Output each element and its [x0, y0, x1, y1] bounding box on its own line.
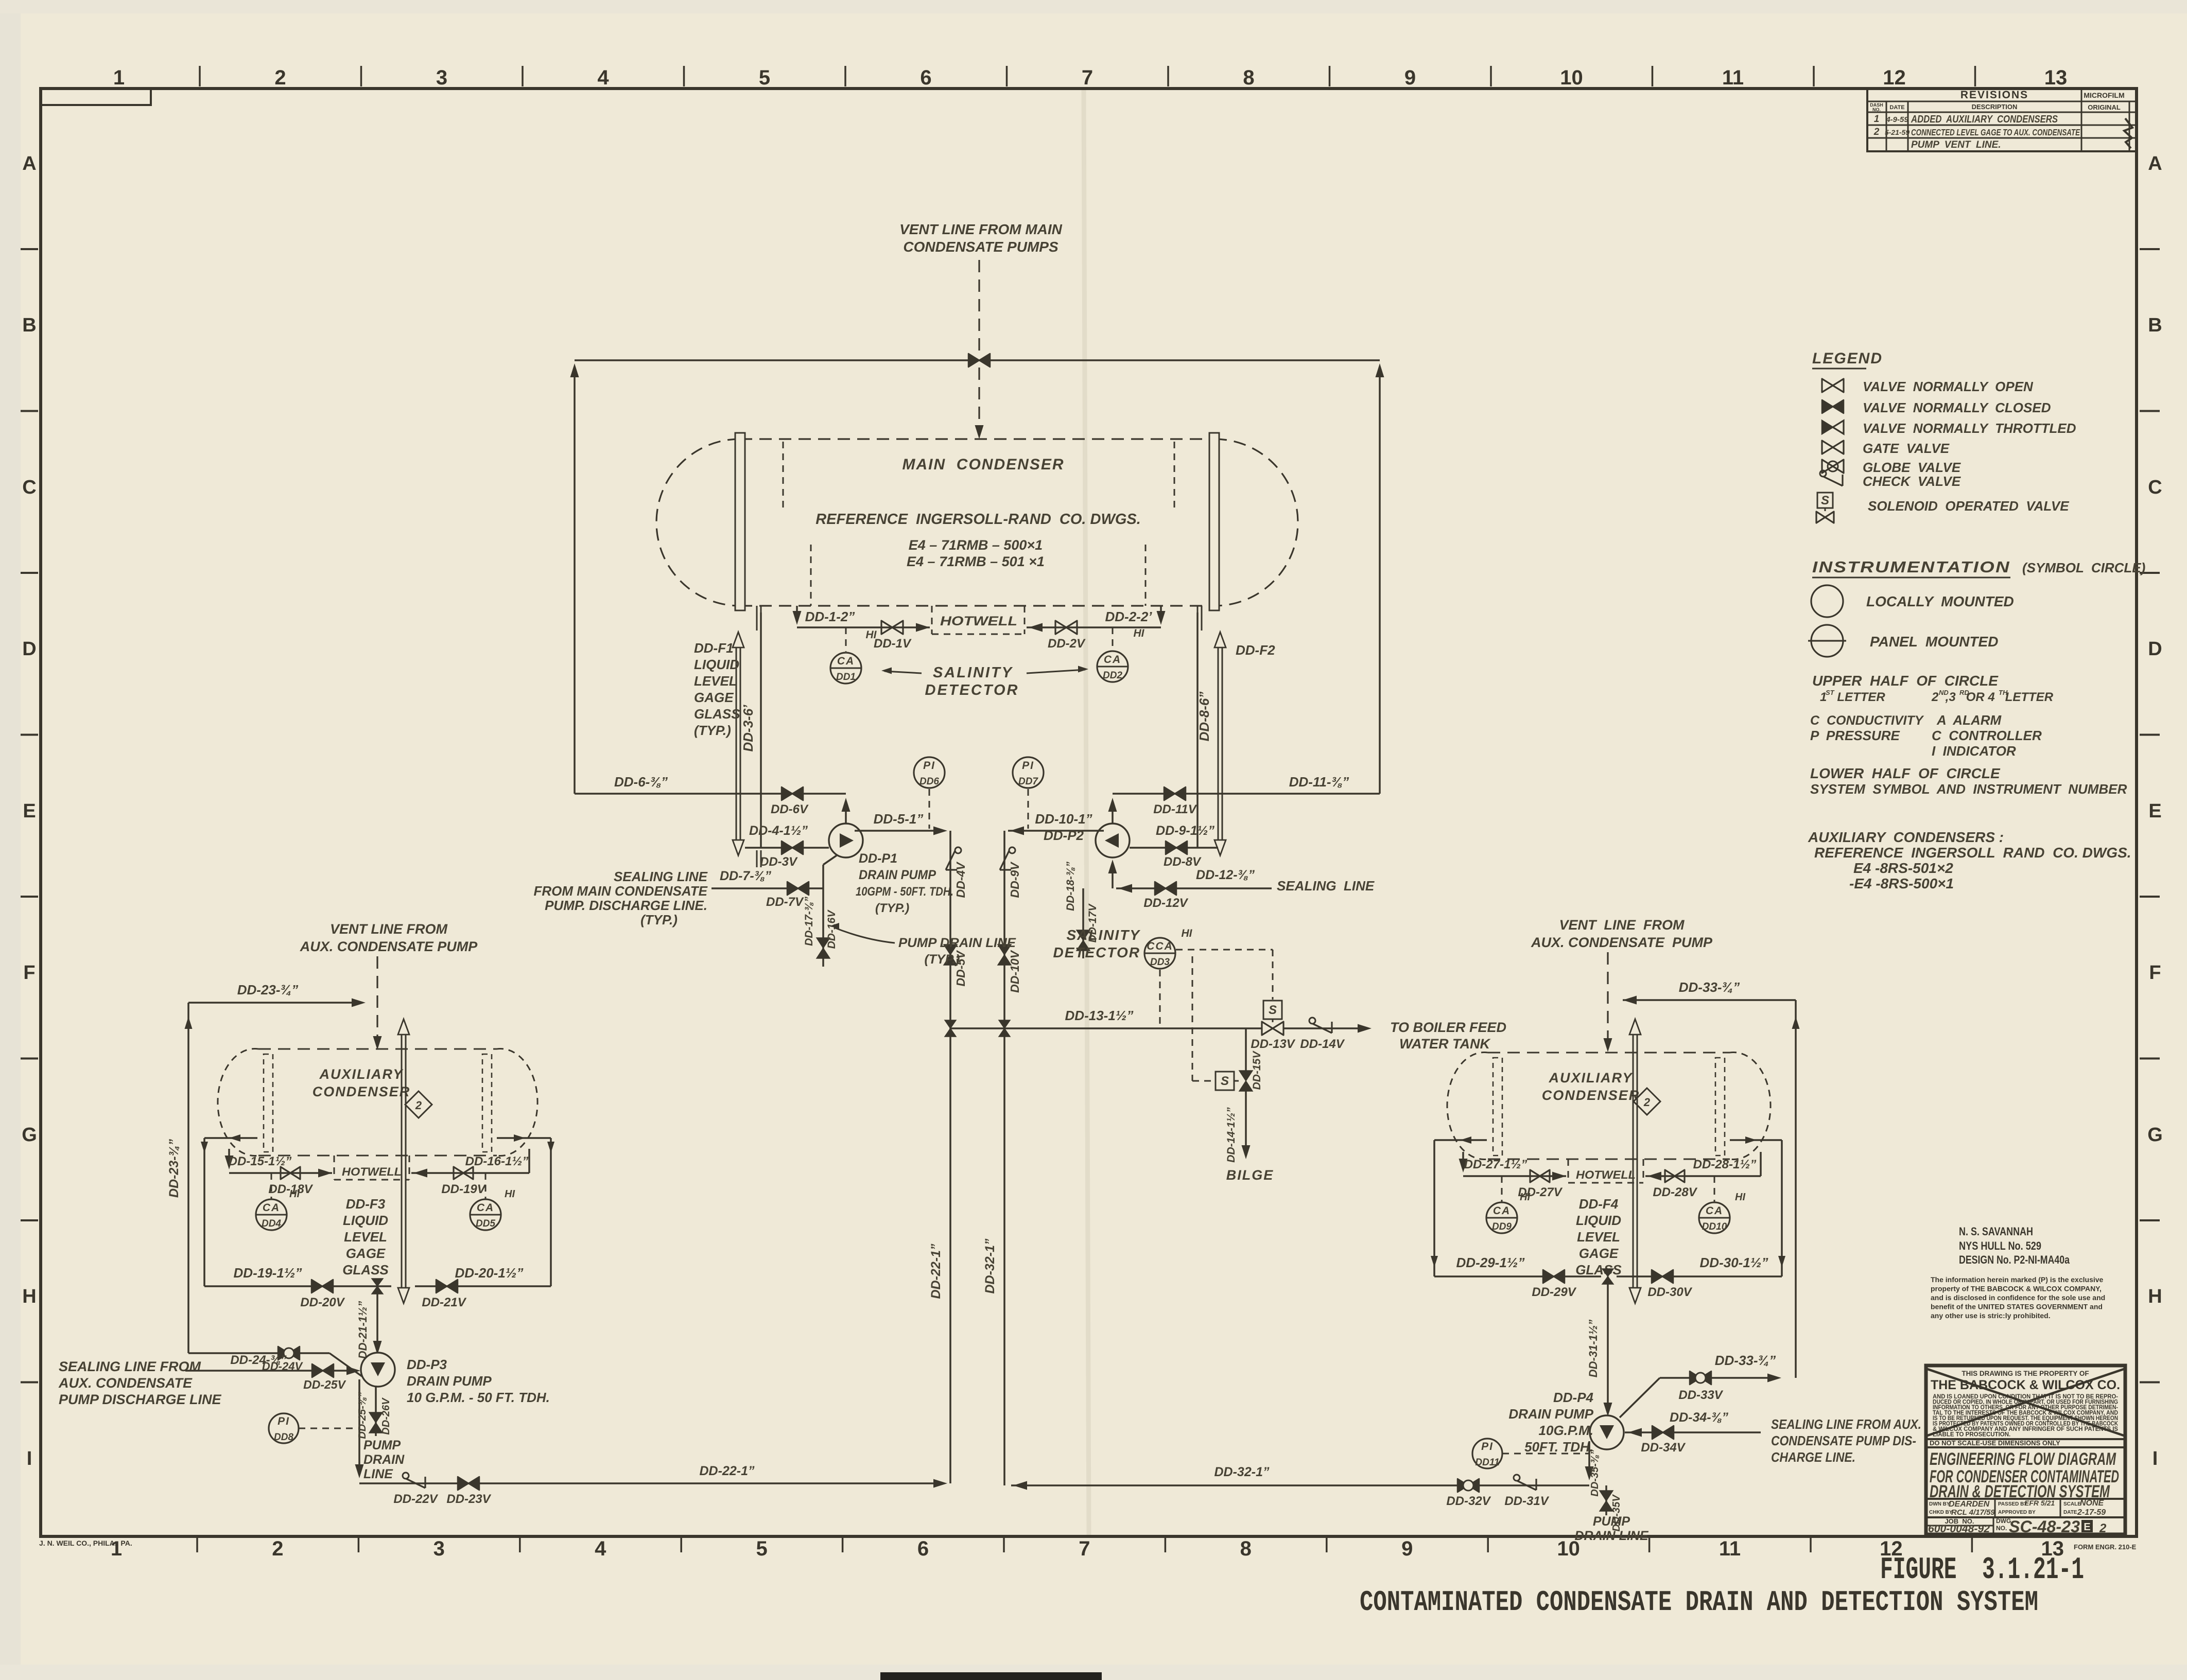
svg-text:10GPM - 50FT. TDH.: 10GPM - 50FT. TDH. [856, 885, 953, 899]
svg-text:DETECTOR: DETECTOR [925, 682, 1019, 698]
svg-text:C CONDUCTIVITY: C CONDUCTIVITY [1810, 713, 1924, 728]
title block credits row [1929, 1499, 2106, 1517]
svg-text:DD5: DD5 [476, 1218, 495, 1229]
pump DD-P3 label [407, 1357, 550, 1405]
pipe DD-30-1.5in [1617, 1255, 1782, 1276]
to boiler feed water tank label [1390, 1020, 1506, 1052]
left vent riser pipe [570, 363, 579, 794]
svg-text:DD-19-1½”: DD-19-1½” [234, 1265, 302, 1281]
right aux left riser [1431, 1136, 1487, 1276]
vent header valve normally closed [968, 354, 990, 367]
svg-text:GLOBE VALVE: GLOBE VALVE [1863, 460, 1961, 475]
svg-text:DD-25-⅜”: DD-25-⅜” [357, 1392, 368, 1439]
svg-text:ENGINEERING FLOW DIAGRAM: ENGINEERING FLOW DIAGRAM [1930, 1449, 2116, 1469]
pipe DD-32 riser [1003, 831, 1005, 1485]
svg-text:NONE: NONE [2080, 1499, 2105, 1508]
svg-text:A ALARM: A ALARM [1936, 712, 2002, 728]
top ruler numbers 1-13 [113, 66, 2067, 89]
svg-text:ADDED AUXILIARY CONDENSERS: ADDED AUXILIARY CONDENSERS [1911, 114, 2058, 125]
svg-text:50FT. TDH.: 50FT. TDH. [1524, 1439, 1593, 1455]
pump DD-P2 [1096, 824, 1130, 857]
svg-text:HOTWELL: HOTWELL [940, 614, 1017, 628]
svg-text:DD-32-1”: DD-32-1” [983, 1238, 997, 1293]
svg-text:DESCRIPTION: DESCRIPTION [1972, 103, 2018, 111]
right aux hotwell box [1568, 1159, 1643, 1183]
valve DD-5V [944, 944, 967, 987]
left auxiliary condenser vessel [218, 1048, 537, 1156]
svg-text:PUMP: PUMP [1593, 1514, 1630, 1529]
svg-text:3: 3 [433, 1537, 445, 1560]
svg-text:DD3: DD3 [1150, 957, 1170, 968]
svg-text:11: 11 [1722, 66, 1744, 89]
pump DD-P2 riser [1108, 798, 1117, 824]
pipe DD-15-1.5in [225, 1149, 333, 1178]
svg-text:The information herein marked: The information herein marked (P) is the… [1931, 1275, 2104, 1284]
svg-text:HI: HI [505, 1188, 515, 1200]
legend check valve [1820, 470, 1961, 489]
instrument CCA DD3 [1144, 927, 1193, 969]
svg-text:DD-9-1½”: DD-9-1½” [1156, 824, 1214, 838]
svg-text:DD-23V: DD-23V [446, 1492, 491, 1506]
svg-text:DD-18-⅜”: DD-18-⅜” [1065, 862, 1077, 911]
legend title [1812, 350, 1883, 369]
svg-text:VENT LINE FROM MAIN: VENT LINE FROM MAIN [899, 221, 1063, 237]
svg-text:DD10: DD10 [1702, 1221, 1727, 1232]
svg-text:PUMP DISCHARGE LINE: PUMP DISCHARGE LINE [59, 1392, 222, 1407]
pipe DD-8-6in [1196, 612, 1212, 848]
svg-text:SYSTEM SYMBOL AND INSTRUMEN: SYSTEM SYMBOL AND INSTRUMENT NUMBER [1810, 781, 2127, 797]
svg-text:SALINITY: SALINITY [933, 664, 1013, 681]
title strip box top-left [41, 89, 151, 105]
legend valve normally open [1822, 379, 2034, 394]
svg-text:MICROFILM: MICROFILM [2084, 91, 2124, 99]
svg-text:(SYMBOL CIRCLE): (SYMBOL CIRCLE) [2022, 560, 2145, 575]
svg-text:DD-5-1”: DD-5-1” [874, 811, 924, 827]
junction right aux drain [1602, 1269, 1613, 1284]
svg-text:DD-F2: DD-F2 [1236, 642, 1275, 658]
check valve DD-14V [1300, 1018, 1345, 1051]
svg-text:CHECK VALVE: CHECK VALVE [1863, 474, 1961, 489]
svg-text:S: S [1269, 1003, 1277, 1017]
main condenser reference note [815, 511, 1141, 569]
svg-text:10: 10 [1560, 66, 1583, 89]
svg-text:DD-P2: DD-P2 [1044, 828, 1084, 843]
pipe DD-3-6ft [740, 612, 761, 848]
svg-text:DATE: DATE [2063, 1510, 2077, 1515]
svg-text:CA: CA [263, 1202, 280, 1214]
svg-text:C: C [2148, 477, 2162, 498]
bottom ruler tick marks [197, 1538, 1972, 1552]
svg-text:DD-F1: DD-F1 [694, 640, 734, 656]
svg-text:DATE: DATE [1889, 104, 1904, 111]
information notice [1931, 1275, 2105, 1320]
svg-text:LEVEL: LEVEL [1577, 1229, 1620, 1245]
svg-text:CA: CA [477, 1202, 494, 1214]
svg-text:DD-7V: DD-7V [766, 895, 804, 909]
svg-text:S: S [1821, 494, 1829, 507]
instrument CA DD5 [470, 1173, 515, 1230]
svg-text:2: 2 [272, 1537, 283, 1560]
svg-text:AUX. CONDENSATE: AUX. CONDENSATE [58, 1375, 193, 1391]
pipe DD-11-3/8in [1113, 774, 1380, 794]
svg-text:DD-30-1½”: DD-30-1½” [1700, 1255, 1768, 1270]
svg-text:HOTWELL: HOTWELL [342, 1165, 402, 1178]
svg-text:13: 13 [2044, 66, 2068, 89]
svg-text:GATE VALVE: GATE VALVE [1863, 441, 1950, 456]
valve DD-18V [268, 1167, 313, 1196]
svg-text:UPPER HALF OF CIRCLE: UPPER HALF OF CIRCLE [1812, 673, 1999, 689]
svg-text:AUX. CONDENSATE PUMP: AUX. CONDENSATE PUMP [1531, 935, 1713, 950]
svg-text:DD-1V: DD-1V [874, 637, 912, 651]
instrument PI DD7 [1013, 757, 1044, 829]
svg-text:SOLENOID OPERATED VALVE: SOLENOID OPERATED VALVE [1868, 498, 2069, 514]
svg-text:DESIGN No. P2-NI-MA40a: DESIGN No. P2-NI-MA40a [1959, 1253, 2070, 1266]
instrument CA DD1 [830, 627, 877, 684]
pump DD-P4 drain pipe [1585, 1441, 1601, 1497]
svg-text:6: 6 [920, 66, 931, 89]
svg-text:MAIN CONDENSER: MAIN CONDENSER [902, 456, 1064, 473]
svg-text:C CONTROLLER: C CONTROLLER [1932, 728, 2042, 743]
svg-text:DD-4V: DD-4V [954, 862, 967, 898]
svg-text:DD1: DD1 [836, 672, 856, 682]
pipe DD-10-1in [1008, 811, 1104, 835]
legend solenoid operated valve [1816, 493, 2069, 523]
svg-text:PI: PI [1481, 1441, 1494, 1452]
top ruler tick marks [200, 66, 1975, 86]
svg-text:CA: CA [837, 655, 855, 667]
svg-text:REFERENCE INGERSOLL-RAND CO.: REFERENCE INGERSOLL-RAND CO. DWGS. [815, 511, 1141, 528]
svg-text:TH: TH [1999, 689, 2008, 696]
pipe DD-2-2in [1027, 606, 1166, 632]
svg-text:DD-15-1½”: DD-15-1½” [229, 1154, 292, 1168]
patent notice [1930, 1370, 2120, 1447]
valve DD-23V [446, 1477, 491, 1506]
svg-text:DRAIN PUMP: DRAIN PUMP [859, 868, 936, 882]
valve DD-26V [357, 1386, 392, 1439]
legend lower half note [1810, 765, 2127, 797]
svg-text:DD-28V: DD-28V [1653, 1185, 1697, 1199]
svg-text:-E4 -8RS-500×1: -E4 -8RS-500×1 [1849, 876, 1954, 891]
left aux left riser [201, 1134, 257, 1286]
svg-text:5: 5 [756, 1537, 767, 1560]
svg-text:DD-15V: DD-15V [1251, 1051, 1263, 1090]
legend locally mounted symbol [1811, 585, 2014, 617]
svg-text:ND: ND [1939, 689, 1949, 696]
svg-text:C: C [22, 477, 36, 498]
instrument CA DD4 [256, 1173, 300, 1230]
pump DD-P2 label [1044, 828, 1084, 843]
svg-text:F: F [23, 962, 35, 984]
main hotwell label [940, 614, 1017, 628]
pump DD-P4 label [1508, 1390, 1593, 1455]
pipe DD-5-1in [855, 811, 947, 835]
right aux vent label [1531, 917, 1713, 950]
pipe DD-21-1.5in drop [356, 1286, 382, 1359]
pipe DD-34-3/8in [1625, 1410, 1761, 1437]
svg-text:G: G [22, 1124, 37, 1146]
vent line from main condensate pumps label [899, 221, 1063, 255]
svg-text:4: 4 [595, 1537, 606, 1560]
valve DD-28V [1653, 1170, 1697, 1199]
svg-text:DD-3V: DD-3V [760, 855, 798, 869]
svg-text:9: 9 [1401, 1537, 1413, 1560]
svg-text:benefit of the UNITED STATES G: benefit of the UNITED STATES GOVERNMENT … [1931, 1303, 2103, 1311]
svg-text:DD-4-1½”: DD-4-1½” [749, 824, 808, 838]
pipe DD-20-1.5in [415, 1265, 551, 1286]
svg-text:INSTRUMENTATION: INSTRUMENTATION [1812, 558, 2010, 576]
svg-text:8: 8 [1240, 1537, 1252, 1560]
svg-text:E: E [2148, 800, 2161, 822]
pipe DD-1-2in [793, 606, 930, 632]
right vent riser pipe [1376, 363, 1384, 794]
svg-text:S: S [1221, 1074, 1229, 1088]
left row letters A-I [22, 153, 37, 1469]
svg-text:DD-11-⅜”: DD-11-⅜” [1289, 774, 1349, 790]
svg-text:(TYP.): (TYP.) [875, 901, 909, 915]
svg-text:A: A [2148, 153, 2162, 174]
svg-text:CCA: CCA [1147, 940, 1173, 952]
valve DD-21V [422, 1280, 466, 1309]
svg-text:DD-8-6”: DD-8-6” [1196, 692, 1212, 742]
pipe DD-7-3/8in [711, 869, 823, 888]
svg-text:E4 – 71RMB – 501 ×1: E4 – 71RMB – 501 ×1 [907, 554, 1045, 569]
svg-text:DWN BY: DWN BY [1929, 1501, 1950, 1507]
legend instrumentation title [1812, 558, 2145, 577]
vent header pipe [575, 359, 1380, 361]
drawing title [1930, 1449, 2119, 1501]
svg-text:D: D [2148, 638, 2162, 660]
svg-text:12: 12 [1883, 66, 1906, 89]
instrument CA DD2 [1097, 627, 1145, 682]
svg-text:4-9-59: 4-9-59 [1885, 115, 1908, 124]
svg-text:E4 – 71RMB – 500×1: E4 – 71RMB – 500×1 [909, 537, 1043, 553]
pipe DD-4-1.5in [745, 824, 829, 848]
svg-text:DD9: DD9 [1492, 1221, 1512, 1232]
svg-text:PI: PI [277, 1415, 290, 1427]
valve DD-35V [1600, 1485, 1622, 1532]
instrument PI DD11 [1472, 1439, 1589, 1468]
svg-text:DD-23-¾”: DD-23-¾” [167, 1139, 181, 1198]
svg-text:AUXILIARY: AUXILIARY [1548, 1070, 1633, 1086]
valve DD-8V [1164, 841, 1202, 869]
right aux hotwell label [1576, 1168, 1636, 1181]
svg-text:H: H [2148, 1286, 2162, 1307]
right aux condenser label [1542, 1070, 1640, 1103]
valve DD-34V [1641, 1426, 1686, 1455]
svg-text:DD-33V: DD-33V [1678, 1388, 1723, 1402]
legend valve normally closed [1822, 400, 2051, 415]
solenoid valve DD-13V [1251, 1001, 1295, 1051]
svg-text:VALVE NORMALLY OPEN: VALVE NORMALLY OPEN [1863, 379, 2034, 394]
svg-text:WATER TANK: WATER TANK [1399, 1036, 1491, 1052]
svg-text:RCL 4/17/59: RCL 4/17/59 [1951, 1508, 1995, 1517]
svg-text:DD-6-⅜”: DD-6-⅜” [614, 774, 668, 790]
svg-text:DD-30V: DD-30V [1647, 1285, 1692, 1299]
svg-text:NO.: NO. [1996, 1525, 2007, 1532]
svg-text:CHKD BY: CHKD BY [1929, 1510, 1953, 1515]
svg-text:DETECTOR: DETECTOR [1053, 944, 1141, 960]
pipe DD-16-1.5in [411, 1149, 529, 1178]
svg-text:PUMP: PUMP [363, 1438, 401, 1452]
pipe DD-23-3/4in top [188, 982, 366, 1007]
svg-text:G: G [2147, 1124, 2163, 1146]
valve DD-2V [1048, 621, 1086, 651]
valve DD-27V [1518, 1170, 1563, 1199]
svg-text:7: 7 [1082, 66, 1093, 89]
svg-text:DD-21-1½”: DD-21-1½” [356, 1301, 369, 1359]
svg-text:DD-F4: DD-F4 [1579, 1196, 1619, 1212]
job and drawing number [1926, 1517, 2107, 1536]
svg-text:DD6: DD6 [919, 776, 939, 787]
svg-text:DD-34-⅜”: DD-34-⅜” [1670, 1410, 1728, 1425]
svg-text:CONNECTED LEVEL GAGE TO AUX. C: CONNECTED LEVEL GAGE TO AUX. CONDENSATE [1911, 127, 2080, 137]
svg-text:LIQUID: LIQUID [694, 657, 739, 672]
svg-text:SEALING LINE FROM: SEALING LINE FROM [59, 1359, 201, 1374]
sealing line right label [1277, 878, 1375, 894]
pipe DD-27-1.5in [1459, 1152, 1567, 1181]
svg-text:THIS DRAWING IS THE PROPERTY O: THIS DRAWING IS THE PROPERTY OF [1962, 1370, 2089, 1377]
svg-text:VENT LINE FROM: VENT LINE FROM [330, 921, 448, 937]
svg-text:DD-28-1½”: DD-28-1½” [1693, 1158, 1757, 1171]
svg-text:GAGE: GAGE [694, 690, 734, 705]
valve DD-7V [766, 882, 809, 909]
svg-text:LOCALLY MOUNTED: LOCALLY MOUNTED [1866, 593, 2014, 609]
sealing line from main label [533, 869, 707, 927]
svg-text:HI: HI [289, 1188, 300, 1200]
svg-text:(TYP.): (TYP.) [925, 952, 960, 967]
gauge glass DD-F1 label [694, 640, 740, 738]
pump DD-P3 [361, 1353, 395, 1387]
form number [2074, 1543, 2137, 1551]
svg-text:DD-8V: DD-8V [1164, 855, 1202, 869]
junction left aux drain [372, 1279, 383, 1294]
svg-text:SEALING LINE FROM AUX.: SEALING LINE FROM AUX. [1771, 1416, 1921, 1432]
check valve DD-4V [946, 847, 967, 898]
svg-text:2 ,3 OR 4 LETTER: 2 ,3 OR 4 LETTER [1931, 690, 2054, 704]
svg-text:PASSED BY: PASSED BY [1998, 1501, 2027, 1507]
sealing line from aux label right [1771, 1416, 1921, 1465]
svg-text:F: F [2149, 962, 2161, 984]
salinity detector label center [1053, 927, 1141, 960]
svg-text:HI: HI [866, 629, 877, 641]
main hotwell box [932, 606, 1025, 634]
pipe DD-24-3/8in [185, 1353, 360, 1375]
svg-text:DD-33-¾”: DD-33-¾” [1679, 979, 1740, 995]
valve DD-30V [1647, 1270, 1692, 1299]
svg-text:CA: CA [1104, 654, 1121, 666]
svg-text:(TYP.): (TYP.) [640, 912, 678, 927]
svg-text:FROM MAIN CONDENSATE: FROM MAIN CONDENSATE [533, 883, 707, 899]
vent line dashed drop [975, 260, 984, 439]
svg-text:DD-27-1½”: DD-27-1½” [1464, 1158, 1528, 1171]
svg-text:6: 6 [917, 1537, 929, 1560]
pipe DD-22-1in riser label [929, 1244, 943, 1299]
svg-text:FIGURE 3.1.21-1: FIGURE 3.1.21-1 [1880, 1553, 2084, 1588]
pump DD-P2 seal connection [1108, 860, 1117, 888]
svg-text:DD-6V: DD-6V [771, 802, 809, 816]
pipe DD-31-1.5in drop [1587, 1276, 1612, 1416]
svg-text:VALVE NORMALLY CLOSED: VALVE NORMALLY CLOSED [1863, 400, 2051, 415]
legend upper half note [1812, 673, 2054, 704]
valve DD-19V [441, 1167, 486, 1196]
svg-text:4: 4 [597, 66, 609, 89]
pipe DD-6-3/8in [575, 774, 846, 794]
svg-text:DD-7-⅜”: DD-7-⅜” [720, 869, 772, 883]
svg-text:VALVE NORMALLY THROTTLED: VALVE NORMALLY THROTTLED [1863, 421, 2076, 436]
svg-text:DD-13V: DD-13V [1251, 1037, 1295, 1051]
gauge glass DD-F2 [1197, 606, 1226, 855]
svg-text:DRAIN: DRAIN [363, 1452, 405, 1467]
svg-text:E4 -8RS-501×2: E4 -8RS-501×2 [1853, 860, 1953, 876]
svg-text:CONDENSATE PUMP DIS-: CONDENSATE PUMP DIS- [1771, 1433, 1916, 1448]
svg-text:PUMP VENT LINE.: PUMP VENT LINE. [1911, 139, 2001, 150]
gauge glass DD-F4 label [1575, 1196, 1622, 1277]
svg-text:7: 7 [1079, 1537, 1090, 1560]
svg-text:A: A [22, 153, 36, 174]
svg-text:THE BABCOCK & WILCOX CO.: THE BABCOCK & WILCOX CO. [1931, 1378, 2120, 1392]
svg-text:VENT LINE FROM: VENT LINE FROM [1559, 917, 1685, 933]
legend gate valve [1822, 441, 1950, 456]
svg-text:DD-21V: DD-21V [422, 1296, 466, 1309]
svg-text:DD8: DD8 [274, 1432, 293, 1443]
svg-text:DD-19V: DD-19V [441, 1182, 486, 1196]
pipe DD-22 riser [949, 831, 951, 1483]
svg-text:8: 8 [1243, 66, 1254, 89]
svg-text:10G.P.M.: 10G.P.M. [1539, 1423, 1593, 1438]
svg-text:DD-20V: DD-20V [300, 1296, 345, 1309]
svg-text:HI: HI [1134, 627, 1145, 639]
pump DD-P1 label [856, 851, 953, 915]
pipe DD-32-1in bottom [1011, 1465, 1589, 1490]
svg-text:LEVEL: LEVEL [694, 673, 737, 689]
svg-text:PANEL MOUNTED: PANEL MOUNTED [1870, 634, 1998, 650]
svg-text:DEARDEN: DEARDEN [1949, 1500, 1990, 1509]
left aux hotwell label [342, 1165, 402, 1178]
svg-text:LIQUID: LIQUID [343, 1213, 388, 1228]
pump DD-P4 [1590, 1415, 1624, 1449]
left aux condenser label [313, 1066, 411, 1099]
svg-text:DD-3-6’: DD-3-6’ [740, 705, 756, 752]
svg-text:10 G.P.M. - 50 FT. TDH.: 10 G.P.M. - 50 FT. TDH. [407, 1390, 550, 1405]
pipe DD-33-3/4in top [1623, 979, 1796, 1005]
valve DD-6V [771, 787, 809, 816]
svg-text:CONDENSATE PUMPS: CONDENSATE PUMPS [903, 239, 1058, 255]
svg-text:P PRESSURE: P PRESSURE [1810, 728, 1900, 743]
check valve DD-22V [393, 1473, 438, 1506]
junction DD-22 at DD-13 [945, 1020, 956, 1037]
svg-text:AUXILIARY: AUXILIARY [319, 1066, 404, 1082]
svg-text:LEVEL: LEVEL [344, 1229, 387, 1245]
valve DD-33V [1678, 1371, 1723, 1402]
svg-text:CONDENSER: CONDENSER [313, 1084, 411, 1099]
pump drain line label right [1574, 1514, 1648, 1543]
svg-text:DD-10-1”: DD-10-1” [1035, 811, 1092, 827]
svg-text:DD-17-⅜”: DD-17-⅜” [803, 897, 815, 946]
svg-text:I: I [27, 1448, 32, 1469]
valve DD-20V [300, 1280, 345, 1309]
figure number caption [1880, 1553, 2084, 1588]
valve DD-3V [760, 841, 803, 869]
svg-text:DD-10V: DD-10V [1008, 950, 1021, 992]
svg-text:LEGEND: LEGEND [1812, 350, 1883, 367]
legend valve normally throttled [1822, 421, 2076, 436]
legend panel mounted symbol [1808, 625, 1998, 657]
svg-text:CA: CA [1493, 1205, 1511, 1217]
svg-text:DD-P4: DD-P4 [1553, 1390, 1594, 1405]
svg-text:DD-22-1”: DD-22-1” [700, 1464, 755, 1478]
svg-text:DD-14-1½”: DD-14-1½” [1225, 1107, 1237, 1163]
instrument CA DD9 [1486, 1176, 1530, 1233]
